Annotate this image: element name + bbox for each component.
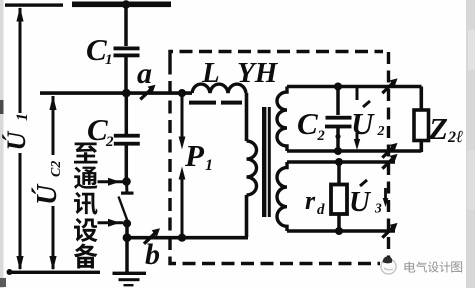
svg-text:2: 2 bbox=[377, 124, 385, 139]
svg-text:1: 1 bbox=[105, 52, 113, 68]
svg-text:1: 1 bbox=[14, 113, 31, 121]
svg-text:3: 3 bbox=[374, 201, 382, 216]
svg-text:2: 2 bbox=[317, 128, 325, 144]
svg-text:U: U bbox=[351, 106, 375, 141]
svg-text:d: d bbox=[317, 202, 325, 218]
svg-text:C2: C2 bbox=[49, 161, 64, 177]
svg-text:C: C bbox=[297, 106, 318, 141]
svg-text:b: b bbox=[145, 238, 160, 271]
svg-text:2: 2 bbox=[105, 134, 114, 150]
svg-text:ℓ: ℓ bbox=[456, 127, 463, 146]
svg-text:C: C bbox=[86, 32, 107, 67]
svg-text:Ú: Ú bbox=[32, 183, 63, 205]
svg-text:Z: Z bbox=[428, 111, 448, 146]
svg-text:r: r bbox=[305, 186, 316, 215]
svg-text:P: P bbox=[184, 138, 205, 173]
svg-text:YH: YH bbox=[237, 57, 279, 89]
svg-text:C: C bbox=[87, 112, 108, 147]
svg-text:2: 2 bbox=[447, 129, 456, 146]
svg-text:Ú: Ú bbox=[2, 131, 31, 151]
svg-text:1: 1 bbox=[205, 157, 213, 174]
svg-text:a: a bbox=[137, 57, 152, 90]
svg-text:U: U bbox=[349, 186, 372, 218]
